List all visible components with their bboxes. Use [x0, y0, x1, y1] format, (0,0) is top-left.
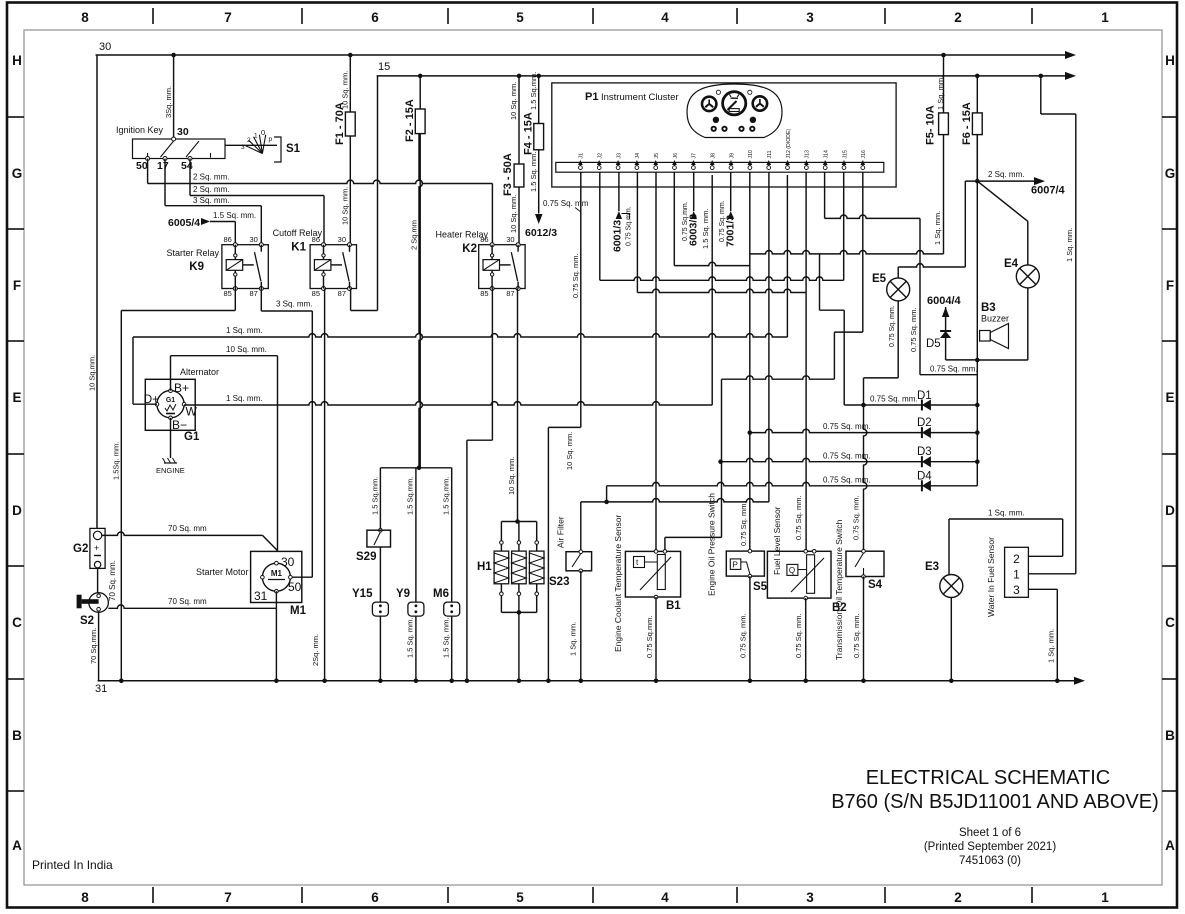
svg-text:F: F	[13, 278, 21, 293]
wire K2 85 to ground bus 31	[491, 289, 493, 441]
svg-text:8: 8	[81, 10, 89, 25]
svg-text:2 Sq.mm: 2 Sq.mm	[410, 220, 419, 250]
cluster indicator dots	[716, 90, 720, 94]
svg-text:S4: S4	[868, 579, 883, 591]
svg-text:G: G	[12, 166, 23, 181]
svg-text:0.75 Sq. mm.: 0.75 Sq. mm.	[930, 365, 978, 374]
svg-text:1.5 Sq. mm.: 1.5 Sq. mm.	[701, 209, 710, 249]
diode D2	[921, 427, 923, 438]
svg-text:6001/3: 6001/3	[612, 220, 624, 252]
wire F5 branch to D1 line	[819, 254, 821, 310]
svg-text:0.75 Sq. mm.: 0.75 Sq. mm.	[571, 253, 580, 298]
svg-text:J8: J8	[711, 153, 717, 159]
svg-text:M1: M1	[290, 605, 307, 617]
grid row labels left	[12, 53, 23, 853]
svg-text:2 Sq. mm.: 2 Sq. mm.	[193, 173, 229, 182]
svg-text:10 Sq. mm.: 10 Sq. mm.	[509, 195, 518, 233]
svg-text:H: H	[12, 53, 22, 68]
wire B1 to ground bus	[655, 597, 657, 681]
fuse F6 - 15A	[975, 74, 980, 79]
grid column ticks bottom	[153, 887, 1032, 903]
wire E3 loop to water in fuel pin 2	[948, 519, 950, 575]
svg-text:5: 5	[516, 10, 524, 25]
svg-text:D3: D3	[917, 446, 932, 458]
svg-text:K9: K9	[189, 261, 204, 273]
svg-text:1 Sq. mm.: 1 Sq. mm.	[569, 622, 578, 656]
wire B2 to ground bus	[805, 598, 807, 681]
wire ignition key feed from wire 30	[173, 55, 175, 137]
wire Y15 to ground bus	[379, 616, 381, 681]
relay K2 heater relay	[479, 245, 525, 289]
diode D3 line	[721, 458, 978, 461]
svg-text:Starter Motor: Starter Motor	[196, 567, 249, 577]
svg-text:C: C	[12, 615, 22, 630]
rotary switch S1 fan	[245, 135, 266, 154]
svg-text:1.5 Sq.mm.: 1.5 Sq.mm.	[406, 477, 415, 515]
svg-text:1 Sq. mm.: 1 Sq. mm.	[988, 509, 1024, 518]
svg-text:6005/4: 6005/4	[168, 217, 200, 229]
wire S5 to ground bus	[749, 576, 751, 681]
S1 bracket	[274, 137, 281, 162]
coolant temperature sensor B1	[625, 551, 680, 597]
svg-text:Sheet 1 of 6: Sheet 1 of 6	[959, 827, 1021, 839]
wire K9 87 to starter motor 50	[260, 289, 262, 312]
svg-text:0.75 Sq. mm.: 0.75 Sq. mm.	[794, 613, 803, 658]
svg-text:ELECTRICAL SCHEMATIC: ELECTRICAL SCHEMATIC	[866, 767, 1110, 789]
wire 15 bus	[377, 75, 1066, 77]
svg-text:0.75 Sq. mm: 0.75 Sq. mm	[543, 199, 589, 208]
svg-text:S5: S5	[753, 581, 768, 593]
svg-text:0.75 Sq. mm.: 0.75 Sq. mm.	[889, 305, 896, 347]
net 6003/3 stub at J7	[693, 172, 695, 211]
net 6012/3 down arrow	[535, 214, 543, 224]
svg-text:S23: S23	[549, 576, 569, 588]
wire cluster J2 to J15 bus	[599, 172, 601, 280]
svg-text:J7: J7	[692, 153, 698, 159]
wire cluster J5 to coolant sensor B1	[655, 172, 657, 551]
svg-text:1.5 Sq.mm.: 1.5 Sq.mm.	[371, 477, 380, 515]
svg-text:87: 87	[249, 289, 257, 298]
svg-text:Fuel Level Sensor: Fuel Level Sensor	[772, 506, 782, 575]
wire cluster J10 to oil pressure switch S5	[749, 172, 751, 551]
svg-text:B3: B3	[981, 302, 996, 314]
svg-text:J9: J9	[729, 153, 735, 159]
svg-text:6: 6	[371, 890, 379, 905]
svg-text:0.75 Sq. mm.: 0.75 Sq. mm.	[739, 501, 748, 546]
wire water in fuel pin 3 to ground	[1028, 588, 1057, 590]
fuse F1 - 70A	[348, 53, 353, 58]
svg-text:4: 4	[661, 10, 669, 25]
svg-text:D1: D1	[917, 390, 932, 402]
svg-text:30: 30	[249, 235, 257, 244]
wire cluster J13 to fuel level sensor B2	[805, 172, 807, 551]
svg-text:B: B	[12, 728, 22, 743]
diode D1	[921, 400, 923, 411]
svg-text:0.75 Sq. mm.: 0.75 Sq. mm.	[852, 613, 861, 658]
relay K9 starter relay	[222, 245, 268, 289]
svg-text:3 Sq. mm.: 3 Sq. mm.	[276, 300, 312, 309]
svg-text:E4: E4	[1004, 258, 1019, 270]
left gauge	[702, 97, 716, 111]
wire D+ 1 Sq.mm. bus to cluster J12	[133, 403, 157, 405]
svg-text:7: 7	[224, 890, 232, 905]
svg-text:0.75 Sq. mm.: 0.75 Sq. mm.	[794, 495, 803, 540]
ignition key terminals 50 17 54	[146, 157, 150, 161]
fuse F2 - 15A	[418, 74, 423, 79]
cluster gauge face	[687, 84, 782, 138]
wire S2 to starter motor 31 terminal	[108, 605, 276, 608]
battery G2 box	[90, 528, 105, 568]
buzzer B3	[980, 331, 991, 342]
wire water in fuel pin 1 stub	[1028, 573, 1075, 575]
svg-text:Air Filter: Air Filter	[556, 516, 566, 548]
svg-text:S1: S1	[286, 143, 301, 155]
svg-text:W: W	[186, 405, 198, 419]
svg-text:(Printed September 2021): (Printed September 2021)	[924, 841, 1056, 853]
svg-text:6012/3: 6012/3	[525, 227, 557, 239]
svg-text:Engine Coolant Temperature Sen: Engine Coolant Temperature Sensor	[613, 514, 623, 652]
svg-text:7: 7	[224, 10, 232, 25]
wire cluster J14 bus	[824, 172, 826, 218]
svg-text:10 Sq.mm.: 10 Sq.mm.	[88, 355, 97, 391]
svg-text:B760 (S/N B5JD11001 AND ABOVE): B760 (S/N B5JD11001 AND ABOVE)	[831, 791, 1159, 813]
svg-text:70 Sq. mm.: 70 Sq. mm.	[108, 560, 117, 601]
wire S23 to ground bus	[580, 571, 582, 681]
wire E4 bottom to B3 junction	[1027, 288, 1029, 360]
svg-text:Ignition Key: Ignition Key	[116, 125, 164, 135]
svg-text:Printed In India: Printed In India	[32, 858, 113, 872]
alternator terminals	[169, 389, 173, 393]
alternator G1 box	[145, 379, 195, 430]
svg-text:2Sq. mm.: 2Sq. mm.	[311, 634, 320, 666]
svg-text:F5- 10A: F5- 10A	[925, 105, 937, 145]
svg-text:1 Sq. mm.: 1 Sq. mm.	[1047, 629, 1056, 663]
svg-text:Heater Relay: Heater Relay	[435, 230, 488, 240]
svg-text:0.75 Sq. mm.: 0.75 Sq. mm.	[852, 495, 861, 540]
svg-text:1.5 Sq. mm.: 1.5 Sq. mm.	[441, 618, 450, 658]
fuse F4 - 15A	[536, 74, 541, 79]
svg-text:Transmission Oil Temperature S: Transmission Oil Temperature Switch	[834, 519, 844, 660]
svg-text:87: 87	[338, 289, 346, 298]
wire B- to engine ground	[170, 418, 172, 458]
air filter switch S23	[580, 502, 582, 552]
grid row ticks right	[1162, 117, 1176, 791]
svg-text:1 Sq. mm.: 1 Sq. mm.	[936, 76, 945, 110]
diode D1 line	[844, 404, 977, 406]
diode D3	[921, 456, 923, 467]
svg-text:D: D	[12, 503, 22, 518]
svg-text:70 Sq.mm.: 70 Sq.mm.	[89, 628, 98, 664]
svg-text:J15: J15	[842, 150, 848, 158]
svg-text:30: 30	[338, 235, 346, 244]
fuse F5 - 10A	[941, 53, 946, 58]
svg-text:D5: D5	[926, 338, 941, 350]
svg-text:J4: J4	[635, 153, 641, 159]
svg-text:31: 31	[254, 589, 268, 603]
svg-text:3: 3	[1013, 583, 1020, 597]
svg-text:0.75 Sq. mm.: 0.75 Sq. mm.	[909, 307, 918, 352]
svg-text:1 Sq. mm.: 1 Sq. mm.	[226, 394, 262, 403]
ground bus 31 arrowhead	[1074, 677, 1085, 685]
solenoid M6	[451, 468, 453, 602]
svg-text:F6 - 15A: F6 - 15A	[961, 102, 973, 145]
svg-text:E3: E3	[925, 561, 939, 573]
svg-text:3 Sq. mm.: 3 Sq. mm.	[193, 196, 229, 205]
net 6005/4 arrow to starter relay coil	[201, 218, 210, 225]
svg-text:J5: J5	[654, 153, 660, 159]
wire H1 to ground bus	[518, 612, 520, 680]
glow plugs H1 elements	[500, 522, 502, 542]
svg-text:K1: K1	[291, 242, 306, 254]
wire F2 output to S29 Y9 M6 junction	[419, 134, 422, 468]
svg-text:Starter Relay: Starter Relay	[166, 248, 219, 258]
wire S2 to ground bus 31	[98, 612, 100, 681]
wire M1 31 terminal down	[275, 591, 277, 608]
air filter bus S23	[581, 498, 769, 501]
solenoid Y15	[372, 602, 388, 616]
svg-text:P: P	[732, 560, 738, 570]
svg-text:3: 3	[241, 144, 245, 151]
ground bus 31	[98, 680, 1075, 682]
svg-text:G2: G2	[73, 543, 88, 555]
svg-text:J13: J13	[805, 150, 811, 158]
svg-text:Y9: Y9	[396, 588, 410, 600]
svg-text:1.5 Sq. mm.: 1.5 Sq. mm.	[529, 152, 538, 192]
svg-text:Cutoff Relay: Cutoff Relay	[273, 228, 323, 238]
wire K2 87 to glow plugs H1	[517, 289, 519, 522]
svg-text:Instrument Cluster: Instrument Cluster	[601, 92, 679, 103]
grid column labels top	[81, 10, 1109, 25]
wire K1 87 to wire 15	[350, 289, 352, 311]
wire terminal 17 to starter relay K9 contact	[164, 159, 166, 206]
engine ground symbol	[164, 462, 177, 464]
svg-text:Y15: Y15	[352, 588, 373, 600]
fuse F3 - 50A	[517, 74, 522, 79]
starter motor terminals	[275, 561, 279, 565]
fuel level sensor B2	[767, 551, 831, 598]
rotary switch S1 link line	[225, 144, 277, 146]
svg-text:0.75 Sq.mm.: 0.75 Sq.mm.	[626, 206, 633, 246]
wire S4 riser through diode lines	[864, 405, 867, 551]
wire M6 to ground bus	[451, 616, 453, 681]
wire S4 to ground bus	[863, 577, 865, 681]
svg-text:10 Sq. mm.: 10 Sq. mm.	[507, 457, 516, 495]
svg-text:G1: G1	[184, 431, 200, 443]
svg-text:1: 1	[1101, 10, 1109, 25]
wire cluster J16 to coolant sensor B1 second terminal	[862, 172, 864, 332]
svg-text:C: C	[1165, 615, 1175, 630]
svg-text:J11: J11	[767, 150, 773, 158]
water in fuel sensor connector	[1005, 547, 1029, 597]
starter motor M1 box	[251, 551, 302, 602]
wire cluster J1 ground to bus 31	[580, 172, 582, 427]
svg-text:p: p	[269, 136, 273, 143]
svg-text:K2: K2	[462, 243, 477, 255]
lamp E5 charge indicator	[887, 278, 910, 301]
svg-text:6007/4: 6007/4	[1031, 185, 1066, 197]
svg-text:0.75 Sq. mm.: 0.75 Sq. mm.	[870, 395, 918, 404]
wire Y9 to ground bus	[415, 616, 417, 681]
lamp E4	[1016, 265, 1039, 288]
svg-text:3Sq. mm.: 3Sq. mm.	[164, 86, 173, 118]
wire F6 output down to B3 and diode bus	[976, 135, 978, 486]
diode D2 line	[750, 429, 978, 432]
svg-text:70 Sq. mm: 70 Sq. mm	[168, 524, 207, 533]
wire E5 bottom to D1 junction	[897, 301, 899, 378]
wire W 1 Sq.mm. bus to cluster J8	[184, 402, 712, 405]
wire K1 85 to ground bus 31	[324, 289, 326, 681]
svg-text:6003/3: 6003/3	[688, 214, 700, 246]
svg-text:50: 50	[288, 580, 302, 594]
svg-text:10 Sq. mm.: 10 Sq. mm.	[509, 82, 518, 120]
svg-text:5: 5	[516, 890, 524, 905]
grid row ticks left	[8, 117, 24, 791]
svg-text:J16: J16	[861, 150, 867, 158]
svg-text:1 Sq. mm.: 1 Sq. mm.	[933, 211, 942, 245]
solenoid S29 fuel shutoff switch	[379, 468, 381, 530]
svg-text:31: 31	[95, 683, 107, 695]
svg-text:1: 1	[1101, 890, 1109, 905]
svg-text:ENGINE: ENGINE	[156, 466, 185, 475]
svg-text:1 Sq. mm.: 1 Sq. mm.	[1065, 228, 1074, 262]
wire B+ 10 Sq.mm. to starter motor 30	[170, 356, 172, 391]
svg-text:54: 54	[181, 160, 193, 172]
wire 15 to water in fuel pin 1	[1040, 76, 1042, 114]
wire 30 top bus	[96, 54, 1067, 56]
svg-text:B+: B+	[174, 381, 189, 395]
alternator G1 circle	[157, 391, 184, 418]
svg-text:2 Sq. mm.: 2 Sq. mm.	[193, 185, 229, 194]
svg-text:1 Sq. mm.: 1 Sq. mm.	[226, 326, 262, 335]
oil pressure switch S5	[726, 551, 764, 576]
svg-text:30: 30	[281, 555, 295, 569]
svg-text:2: 2	[954, 890, 962, 905]
wire K9 85 to ground bus 31	[234, 289, 236, 311]
svg-text:J3: J3	[616, 153, 622, 159]
solenoid Y9	[415, 468, 417, 602]
svg-text:7001/3: 7001/3	[725, 215, 737, 247]
diode D4 line	[606, 486, 608, 502]
svg-text:P1: P1	[585, 91, 598, 103]
svg-text:0.75 Sq.mm.: 0.75 Sq.mm.	[645, 615, 654, 658]
wire 15 arrowhead	[1065, 72, 1076, 80]
svg-text:F: F	[1166, 278, 1174, 293]
lamp E3 water in fuel indicator	[940, 575, 963, 598]
svg-text:15: 15	[378, 61, 390, 73]
glow plugs H1 bottom rail	[501, 611, 536, 613]
svg-text:30: 30	[506, 235, 514, 244]
svg-text:A: A	[1165, 838, 1175, 853]
wire cluster J4 to fuel sensor bus	[636, 172, 638, 292]
relay K1 cutoff relay	[310, 245, 356, 289]
svg-text:M6: M6	[433, 588, 449, 600]
svg-text:Q: Q	[789, 566, 795, 575]
svg-text:1: 1	[254, 133, 258, 140]
svg-text:D2: D2	[917, 417, 932, 429]
svg-text:M1: M1	[271, 569, 283, 578]
starter motor M1 circle	[262, 563, 290, 591]
wire battery negative to chassis ground S2	[97, 568, 99, 593]
wire E5 top feed	[897, 267, 899, 278]
instrument cluster P1 box	[552, 83, 896, 187]
wire 30 arrowhead	[1065, 51, 1076, 59]
svg-text:H: H	[1165, 53, 1175, 68]
wire cluster J6 to J10	[673, 172, 675, 265]
cluster connector pins	[578, 129, 867, 170]
svg-text:85: 85	[312, 289, 320, 298]
transmission oil temperature switch S4	[846, 551, 884, 576]
svg-text:17: 17	[157, 160, 169, 172]
svg-text:J6: J6	[673, 153, 679, 159]
svg-text:70 Sq. mm: 70 Sq. mm	[168, 597, 207, 606]
svg-text:D4: D4	[917, 471, 932, 483]
wire battery positive to starter motor 70 Sq.mm	[102, 532, 263, 535]
grid column labels bottom	[81, 890, 1109, 905]
svg-text:6: 6	[371, 10, 379, 25]
wire S29 to Y15	[379, 547, 381, 602]
wire cluster J11 to air filter bus	[768, 172, 770, 502]
svg-text:30: 30	[99, 41, 111, 53]
grid column ticks top	[153, 8, 1032, 24]
grid row labels right	[1165, 53, 1176, 853]
svg-text:Engine Oil Pressure Switch: Engine Oil Pressure Switch	[707, 493, 717, 596]
ignition key switch box	[133, 139, 226, 159]
svg-text:4: 4	[661, 890, 669, 905]
svg-text:2 Sq. mm.: 2 Sq. mm.	[988, 170, 1024, 179]
svg-text:E5: E5	[872, 273, 887, 285]
net 6004/4 arrow and diode D5	[942, 307, 950, 317]
svg-text:85: 85	[223, 289, 231, 298]
ignition key internal contacts	[161, 141, 174, 157]
svg-text:3: 3	[806, 10, 814, 25]
wire 6007 junction diagonal to E4	[977, 181, 1028, 221]
svg-text:E: E	[1165, 390, 1174, 405]
svg-text:2: 2	[954, 10, 962, 25]
svg-text:0: 0	[261, 128, 265, 137]
svg-text:J10: J10	[748, 150, 754, 158]
svg-text:2: 2	[247, 137, 251, 144]
svg-text:F4 - 15A: F4 - 15A	[523, 112, 535, 155]
svg-text:Alternator: Alternator	[180, 367, 219, 377]
svg-text:10 Sq. mm.: 10 Sq. mm.	[341, 187, 350, 225]
svg-text:B: B	[1165, 728, 1175, 743]
center gauge	[723, 92, 746, 115]
svg-text:1.5 Sq.mm.: 1.5 Sq.mm.	[441, 477, 450, 515]
chassis ground S2 symbol	[89, 593, 109, 613]
diode D4	[921, 480, 923, 491]
svg-text:30: 30	[177, 126, 189, 138]
net 6007/4 arrowhead	[1034, 177, 1045, 185]
wire M1 31 to ground bus	[275, 608, 277, 681]
svg-text:E: E	[12, 390, 21, 405]
svg-text:Buzzer: Buzzer	[981, 314, 1009, 324]
svg-text:6004/4: 6004/4	[927, 295, 962, 307]
svg-text:10 Sq. mm.: 10 Sq. mm.	[565, 432, 574, 470]
svg-text:10 Sq. mm.: 10 Sq. mm.	[341, 71, 350, 109]
svg-text:3: 3	[806, 890, 814, 905]
svg-text:10 Sq. mm.: 10 Sq. mm.	[226, 345, 267, 354]
svg-text:2: 2	[1013, 552, 1020, 566]
cluster connector strip	[556, 162, 884, 172]
svg-text:1.5 Sq.mm.: 1.5 Sq.mm.	[529, 72, 538, 110]
net 6001/3 stub at J3	[618, 172, 620, 211]
svg-text:S29: S29	[356, 551, 376, 563]
right gauge	[753, 96, 767, 110]
svg-text:8: 8	[81, 890, 89, 905]
svg-text:1.5 Sq. mm.: 1.5 Sq. mm.	[213, 211, 256, 220]
svg-text:50: 50	[136, 160, 148, 172]
net 6007/4 line	[965, 180, 1035, 182]
